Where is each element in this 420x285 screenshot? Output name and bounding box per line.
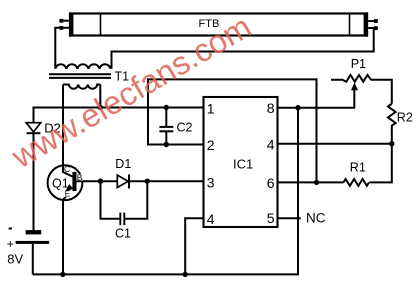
svg-text:C: C	[64, 164, 70, 174]
diode D1	[117, 175, 128, 187]
transformer T1 core	[49, 73, 111, 75]
svg-text:E: E	[65, 189, 71, 199]
node D1 anode	[98, 179, 103, 184]
tube right pin lower	[368, 27, 375, 29]
transistor Q1	[48, 165, 83, 200]
node secondary-right / rail junction	[98, 105, 103, 110]
wire IC pin6 to R1	[278, 181, 344, 183]
node D1 cathode / C1	[145, 179, 150, 184]
transformer T1 primary winding	[55, 64, 110, 68]
svg-text:3: 3	[207, 175, 215, 191]
transformer T1 secondary winding	[63, 85, 100, 89]
tube right end cap	[365, 12, 369, 36]
svg-text:4: 4	[267, 137, 275, 153]
wire secondary left to Q1 collector	[62, 85, 64, 166]
wire pin8 node down to bottom rail	[297, 108, 299, 275]
node pin8 / down-wire	[295, 105, 300, 110]
wire IC pin5 NC stub	[278, 217, 301, 219]
node pin6 / R1 / P1-left junction	[314, 180, 319, 185]
svg-text:R1: R1	[350, 161, 366, 175]
tube left pin lower	[62, 27, 69, 29]
wire R1 right return up	[370, 144, 392, 183]
svg-text:5: 5	[267, 210, 275, 226]
battery negative plate	[26, 230, 42, 234]
svg-text:B: B	[77, 172, 83, 182]
svg-text:C1: C1	[115, 227, 131, 241]
svg-text:+: +	[7, 237, 14, 251]
svg-text:2: 2	[207, 137, 215, 153]
node R2 bottom / pin4 line / R1 return	[389, 141, 394, 146]
wire battery to bottom rail	[32, 244, 34, 275]
svg-text:1: 1	[207, 101, 215, 117]
wire D2 to battery	[33, 133, 35, 230]
capacitor C1 branch	[101, 181, 121, 219]
wire secondary right down to node rail	[99, 85, 101, 108]
P1 wiper arrowhead	[351, 83, 358, 91]
svg-text:8: 8	[267, 100, 275, 116]
svg-text:R2: R2	[397, 110, 413, 124]
wire feedback net: pin2 up over to right	[148, 79, 317, 182]
svg-text:6: 6	[267, 175, 275, 191]
tube right divider	[349, 14, 351, 36]
svg-text:NC: NC	[306, 211, 326, 226]
wire tube right pin down and left to T1 primary right	[112, 28, 374, 69]
svg-text:P1: P1	[351, 57, 366, 71]
wire D1 cathode to IC pin 3	[129, 180, 204, 182]
wire IC pin4 right to R2 bottom	[278, 143, 392, 145]
resistor R1	[344, 179, 370, 186]
svg-text:D1: D1	[115, 157, 131, 171]
svg-text:IC1: IC1	[233, 157, 253, 172]
wire tube left pin to T1 primary left	[55, 28, 59, 69]
wire top rail to IC pin 1	[34, 108, 204, 123]
svg-text:4: 4	[207, 211, 215, 227]
IC1 box	[204, 97, 278, 227]
battery positive plate	[16, 241, 50, 244]
capacitor C2	[164, 105, 169, 110]
tube left divider	[100, 14, 102, 36]
wire D1 anode to triangle	[101, 180, 118, 182]
label B	[77, 174, 83, 180]
svg-text:C2: C2	[177, 121, 193, 135]
wire pin 8 to P1 wiper	[278, 89, 355, 108]
fluorescent tube FTB body	[72, 14, 364, 36]
wire IC pin4 left down to rail	[185, 218, 203, 274]
svg-text:8V: 8V	[7, 252, 23, 267]
label minus	[9, 228, 12, 230]
resistor R2	[388, 104, 396, 144]
tube left end cap	[69, 12, 73, 36]
label E	[64, 191, 70, 197]
tube right pin upper	[368, 20, 375, 22]
node emitter / rail	[60, 272, 65, 277]
bottom rail	[33, 108, 298, 275]
node pin4 wire / rail	[183, 272, 188, 277]
diode D2	[26, 123, 41, 132]
potentiometer P1	[331, 75, 392, 104]
tube left pin upper	[62, 20, 69, 22]
